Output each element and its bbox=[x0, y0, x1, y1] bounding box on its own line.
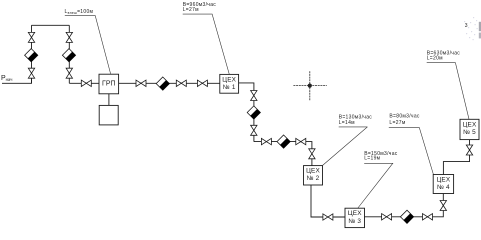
svg-text:ГРП: ГРП bbox=[102, 81, 116, 88]
svg-text:L=20м: L=20м bbox=[427, 56, 443, 62]
box Ceh2 bbox=[304, 166, 323, 185]
box Ceh1 bbox=[220, 74, 239, 93]
valve V11 bbox=[261, 138, 271, 144]
valve V1 left riser top bbox=[28, 32, 34, 42]
valve V3 right riser top bbox=[66, 32, 72, 42]
box Ceh3 bbox=[345, 208, 365, 227]
svg-text:ЦЕХ: ЦЕХ bbox=[348, 210, 362, 217]
svg-text:№ 1: № 1 bbox=[223, 84, 236, 91]
svg-text:L=27м: L=27м bbox=[183, 7, 199, 13]
svg-text:L=19м: L=19м bbox=[364, 156, 380, 162]
valve V6 bbox=[136, 80, 146, 86]
valve V13 bbox=[309, 149, 315, 159]
wire GRP to Ceh1 bbox=[119, 82, 220, 84]
wire corner to Ceh2 bbox=[254, 142, 312, 166]
filter F4 bbox=[247, 106, 260, 119]
valve V15 bbox=[382, 214, 392, 220]
valve V12 bbox=[296, 138, 306, 144]
valve V4 right riser bottom bbox=[66, 68, 72, 78]
filter F6 bbox=[400, 210, 413, 223]
box tank below GRP bbox=[99, 105, 118, 125]
svg-text:№ 3: № 3 bbox=[348, 218, 361, 225]
wire right riser to GRP bbox=[69, 82, 99, 84]
valve V18 bbox=[466, 145, 472, 155]
wire bypass top rail bbox=[32, 24, 70, 26]
annotation A6 V=630m3 bbox=[427, 50, 469, 119]
svg-text:Рнач: Рнач bbox=[1, 75, 12, 82]
svg-text:В=80м3/час: В=80м3/час bbox=[389, 113, 420, 119]
wire left riser bbox=[31, 25, 33, 83]
svg-text:ЦЕХ: ЦЕХ bbox=[306, 168, 320, 175]
filter F1 left riser bbox=[25, 49, 38, 62]
annotation A5 V=150m3 bbox=[358, 151, 398, 208]
svg-text:№ 4: № 4 bbox=[437, 184, 450, 191]
box Ceh5 bbox=[460, 119, 479, 139]
valve V5 before GRP bbox=[81, 80, 91, 86]
filter F2 right riser bbox=[62, 49, 75, 62]
artifact speckles bbox=[464, 17, 478, 40]
svg-text:3: 3 bbox=[465, 23, 468, 29]
svg-text:ЦЕХ: ЦЕХ bbox=[463, 121, 477, 128]
annotation A1 Lvnesh=100m bbox=[65, 9, 111, 74]
valve V14 bbox=[323, 214, 333, 220]
svg-text:L=27м: L=27м bbox=[389, 120, 405, 126]
wire GRP down to tank bbox=[108, 94, 110, 106]
wire Ceh4 top to Ceh5 bbox=[443, 140, 469, 175]
wire Ceh3 right then up to Ceh4 bbox=[365, 194, 444, 217]
filter F5 bbox=[277, 135, 290, 148]
svg-text:№ 5: № 5 bbox=[463, 129, 476, 136]
svg-text:№ 2: № 2 bbox=[307, 175, 320, 182]
svg-text:ЦЕХ: ЦЕХ bbox=[436, 176, 450, 183]
annotation A4 V=80m3 bbox=[389, 113, 434, 174]
valve V9 bbox=[251, 91, 257, 101]
valve V17 bbox=[440, 201, 446, 211]
valve V10 bbox=[251, 125, 257, 135]
svg-text:L=14м: L=14м bbox=[339, 120, 355, 126]
valve V7 bbox=[176, 80, 186, 86]
annotation A2 V=960m3 bbox=[183, 2, 230, 74]
valve V2 left riser bottom bbox=[28, 68, 34, 78]
svg-text:ЦЕХ: ЦЕХ bbox=[222, 76, 236, 83]
wire from Pnach to left riser bbox=[2, 78, 32, 83]
svg-text:Lвнеш=100м: Lвнеш=100м bbox=[65, 9, 94, 15]
edge artifact gray bar bbox=[479, 22, 481, 31]
GRP box bbox=[99, 74, 119, 94]
filter F3 bbox=[156, 77, 169, 90]
annotation A3 V=130m3 bbox=[323, 115, 373, 166]
crosshair center mark bbox=[293, 71, 326, 101]
valve V16 bbox=[423, 214, 433, 220]
wire Ceh1 right then down bbox=[239, 83, 254, 142]
valve V8 bbox=[197, 80, 207, 86]
wire right riser bbox=[68, 25, 70, 83]
box Ceh4 bbox=[433, 175, 453, 194]
wire Ceh2 down then right to Ceh3 bbox=[311, 185, 345, 217]
